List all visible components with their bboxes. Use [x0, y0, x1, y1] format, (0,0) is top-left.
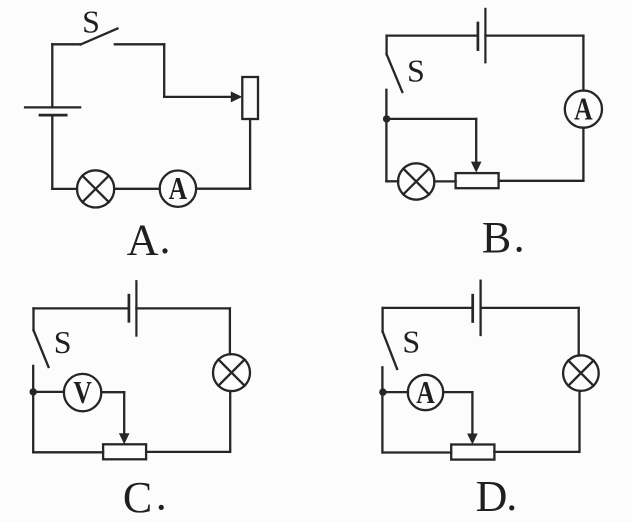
wire A: potentiometer bottom to bottom rail: [249, 119, 251, 189]
svg-text:D: D: [476, 472, 508, 521]
battery GB-A (horizontal plates on left wire): [25, 107, 80, 115]
label A.: [127, 214, 171, 264]
svg-text:A: A: [416, 374, 435, 410]
node (junction dot, circuit C): [30, 388, 37, 395]
wire B: lamp to rheostat: [434, 180, 455, 182]
svg-text:V: V: [73, 374, 92, 410]
lamp L-A (circle with X): [77, 170, 114, 207]
rheostat R-C (horizontal box): [103, 444, 146, 459]
wire B: right vertical upper (top corner to ammeter): [582, 36, 584, 91]
wire C: bottom rail left (corner to rheostat): [33, 451, 103, 453]
wire C: node to voltmeter: [33, 391, 64, 393]
wire B: top rail left (corner to battery): [387, 34, 477, 36]
wire A: top rail, corner to switch pivot: [52, 43, 80, 45]
node (junction dot, circuit D): [379, 388, 386, 395]
wire B: top rail right (battery to corner): [485, 34, 583, 36]
lamp L-C (circle with X): [213, 354, 250, 391]
ammeter A1 (circuit A): [160, 170, 196, 207]
switch S (circuit D, open blade): [383, 332, 398, 369]
wiper arrowhead into potentiometer R-A: [231, 91, 242, 102]
svg-text:S: S: [54, 324, 72, 360]
wiper arrowhead onto rheostat R-C: [119, 433, 130, 444]
wire B: rheostat to right corner: [499, 180, 584, 182]
lamp L-D (circle with X): [563, 355, 599, 391]
wire C: wiper vertical run: [123, 392, 125, 435]
wire C: top rail right (battery to corner): [136, 307, 230, 309]
battery GB-B (vertical plates on top wire): [478, 9, 486, 62]
wire A: ammeter to lamp: [114, 188, 160, 190]
wire A: left vertical lower (battery to bottom rail): [51, 117, 53, 189]
svg-text:A: A: [169, 170, 188, 206]
svg-text:A: A: [574, 91, 593, 127]
wiper arrowhead onto rheostat R-D: [467, 434, 478, 445]
label B.: [482, 213, 525, 263]
wire D: node to ammeter: [383, 391, 408, 393]
wire C: left vertical below switch to bottom rail: [32, 366, 34, 452]
svg-text:S: S: [407, 53, 425, 89]
ammeter A3 (circuit D): [408, 374, 443, 410]
svg-text:.: .: [160, 214, 171, 263]
wire D: right vertical upper (top corner to lamp): [578, 308, 580, 356]
wire B: right vertical lower (ammeter to bottom rail): [582, 128, 584, 181]
wire C: bottom rail right (rheostat to corner): [146, 451, 230, 453]
lamp L-B (circle with X): [398, 163, 434, 199]
wire D: top rail right (battery to corner): [481, 307, 579, 309]
battery GB-C (vertical plates on top wire): [129, 281, 137, 335]
svg-text:.: .: [514, 213, 525, 262]
switch S (circuit C, open blade): [34, 330, 49, 367]
wiper arrowhead onto rheostat R-B: [471, 162, 482, 173]
wire B: bottom rail, left corner to lamp: [386, 180, 398, 182]
wire B: left vertical above switch: [385, 36, 387, 55]
wire A: left vertical upper (top corner to battery): [51, 44, 53, 106]
wire A: right vertical down to wiper level: [163, 44, 165, 97]
wire A: bottom rail, right corner to ammeter: [196, 188, 250, 190]
wire C: right vertical lower (lamp to bottom rail): [229, 391, 231, 452]
wire C: top rail left (corner to battery): [34, 307, 128, 309]
wire A: top rail, switch to right corner: [115, 43, 164, 45]
label C.: [123, 471, 167, 522]
wire C: voltmeter to wiper corner: [101, 391, 124, 393]
wire D: ammeter to wiper corner: [443, 391, 472, 393]
wire D: bottom rail right (rheostat to corner): [494, 451, 578, 453]
potentiometer R-A (vertical box): [242, 77, 258, 119]
wire A: lamp to left corner: [52, 188, 77, 190]
rheostat R-D (horizontal box): [451, 445, 494, 460]
wire D: right vertical lower (lamp to bottom rail): [578, 391, 580, 452]
wire A: horizontal run to wiper arrow: [164, 96, 231, 98]
voltmeter V1 (circuit C): [64, 374, 101, 411]
switch S (circuit A, open blade): [81, 29, 118, 45]
ammeter A2 (circuit B): [565, 91, 602, 128]
svg-text:A: A: [127, 215, 159, 264]
wire C: left vertical above switch: [32, 308, 34, 330]
svg-text:.: .: [506, 471, 517, 520]
svg-text:S: S: [82, 4, 100, 40]
svg-text:C: C: [123, 473, 152, 522]
wire B: wiper vertical run: [475, 119, 477, 164]
wire C: right vertical upper (top corner to lamp): [229, 308, 231, 354]
wire D: left vertical above switch: [381, 308, 383, 332]
wire B: left vertical below switch to bottom rail: [385, 90, 387, 182]
node (junction dot, circuit B): [383, 115, 390, 122]
wire D: top rail left (corner to battery): [383, 307, 472, 309]
label D.: [476, 471, 518, 521]
svg-text:.: .: [156, 471, 167, 520]
rheostat R-B (horizontal box): [456, 173, 499, 188]
wire D: left vertical below switch to bottom rail: [381, 367, 383, 452]
wire D: bottom rail left (corner to rheostat): [383, 451, 451, 453]
wire B: node to wiper corner: [387, 118, 477, 120]
wire D: wiper vertical run: [471, 392, 473, 436]
switch S (circuit B, open blade): [387, 54, 403, 92]
battery GB-D (vertical plates on top wire): [473, 281, 481, 335]
svg-text:B: B: [482, 213, 511, 262]
svg-text:S: S: [402, 323, 420, 359]
